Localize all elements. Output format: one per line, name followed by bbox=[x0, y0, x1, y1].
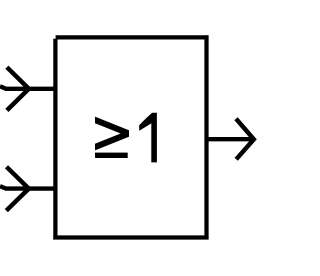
body top side bbox=[56, 35, 209, 39]
OR gate U1 body (IEC rectangle) bbox=[53, 35, 208, 239]
label ≥1 : greater-equal glyph bbox=[95, 117, 129, 158]
arrowhead on input B bbox=[6, 167, 29, 211]
label ≥1 : digit 1 glyph bbox=[139, 113, 157, 163]
body bottom side bbox=[53, 235, 208, 239]
wire: output bbox=[207, 137, 253, 141]
body right side bbox=[204, 35, 208, 239]
wire: input B bbox=[0, 186, 56, 189]
arrowhead on input A bbox=[7, 67, 29, 110]
body left side bbox=[53, 39, 57, 240]
wire: input A bbox=[0, 86, 56, 89]
arrowhead on output bbox=[236, 119, 254, 160]
